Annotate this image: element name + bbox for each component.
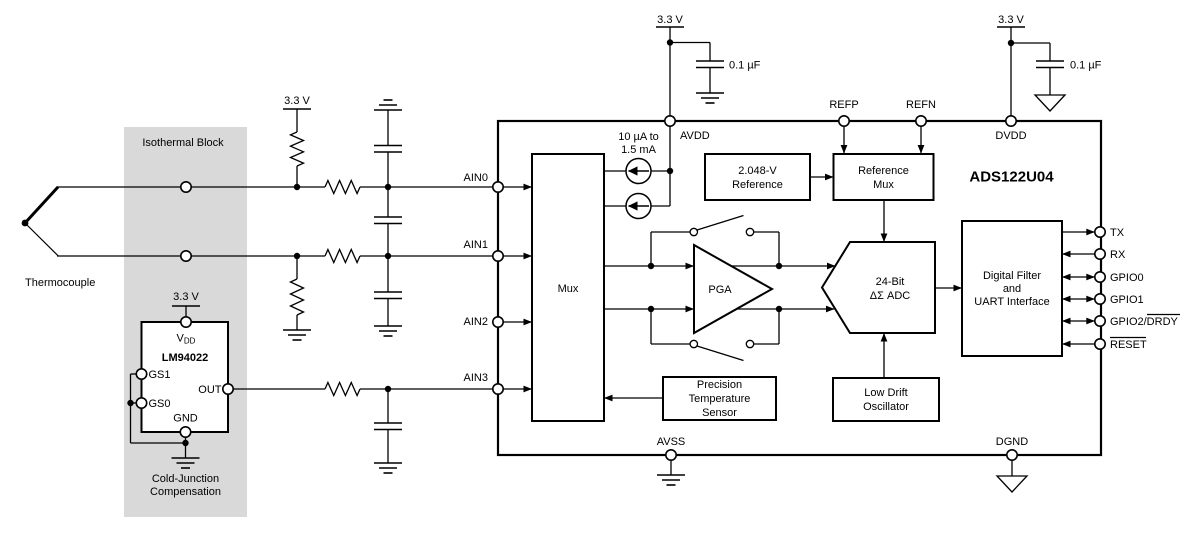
- svg-text:REFN: REFN: [906, 99, 936, 111]
- svg-text:1.5 mA: 1.5 mA: [621, 144, 657, 156]
- svg-text:Reference: Reference: [732, 179, 783, 191]
- svg-text:0.1 µF: 0.1 µF: [1070, 59, 1102, 71]
- svg-text:LM94022: LM94022: [162, 352, 208, 364]
- svg-text:Low Drift: Low Drift: [864, 387, 907, 399]
- svg-text:10 µA to: 10 µA to: [618, 131, 659, 143]
- svg-text:AVDD: AVDD: [680, 130, 710, 142]
- svg-text:0.1 µF: 0.1 µF: [729, 59, 761, 71]
- svg-text:Thermocouple: Thermocouple: [25, 277, 95, 289]
- svg-text:Compensation: Compensation: [150, 486, 221, 498]
- svg-text:Digital Filter: Digital Filter: [983, 270, 1041, 282]
- svg-text:Mux: Mux: [873, 179, 894, 191]
- svg-text:ΔΣ ADC: ΔΣ ADC: [870, 290, 910, 302]
- svg-text:RX: RX: [1110, 249, 1126, 261]
- svg-text:GPIO2/DRDY: GPIO2/DRDY: [1110, 316, 1179, 328]
- svg-text:GPIO1: GPIO1: [1110, 294, 1144, 306]
- svg-text:3.3 V: 3.3 V: [284, 95, 310, 107]
- svg-text:3.3 V: 3.3 V: [173, 291, 199, 303]
- svg-text:3.3 V: 3.3 V: [998, 14, 1024, 26]
- svg-text:ADS122U04: ADS122U04: [969, 168, 1054, 185]
- svg-text:Temperature: Temperature: [689, 393, 751, 405]
- svg-text:Cold-Junction: Cold-Junction: [152, 473, 219, 485]
- svg-text:PGA: PGA: [708, 284, 732, 296]
- svg-text:GS1: GS1: [149, 369, 171, 381]
- svg-text:TX: TX: [1110, 227, 1125, 239]
- svg-text:AIN1: AIN1: [464, 239, 488, 251]
- svg-text:OUT: OUT: [198, 384, 222, 396]
- svg-text:Isothermal Block: Isothermal Block: [142, 137, 224, 149]
- svg-text:3.3 V: 3.3 V: [657, 14, 683, 26]
- svg-text:DVDD: DVDD: [995, 130, 1026, 142]
- svg-text:Precision: Precision: [697, 379, 742, 391]
- svg-text:and: and: [1003, 283, 1021, 295]
- svg-text:GND: GND: [173, 412, 198, 424]
- svg-text:GPIO0: GPIO0: [1110, 272, 1144, 284]
- svg-text:GS0: GS0: [149, 398, 171, 410]
- svg-text:AIN0: AIN0: [464, 172, 488, 184]
- svg-text:RESET: RESET: [1110, 339, 1147, 351]
- svg-text:Sensor: Sensor: [702, 407, 737, 419]
- svg-text:24-Bit: 24-Bit: [876, 276, 905, 288]
- svg-text:2.048-V: 2.048-V: [738, 165, 777, 177]
- svg-text:Oscillator: Oscillator: [863, 401, 909, 413]
- svg-text:Mux: Mux: [558, 283, 579, 295]
- svg-text:UART Interface: UART Interface: [974, 296, 1049, 308]
- svg-text:Reference: Reference: [858, 165, 909, 177]
- svg-text:AVSS: AVSS: [657, 436, 686, 448]
- svg-text:AIN2: AIN2: [464, 316, 488, 328]
- svg-text:AIN3: AIN3: [464, 372, 488, 384]
- svg-text:DGND: DGND: [996, 436, 1028, 448]
- svg-text:REFP: REFP: [829, 99, 858, 111]
